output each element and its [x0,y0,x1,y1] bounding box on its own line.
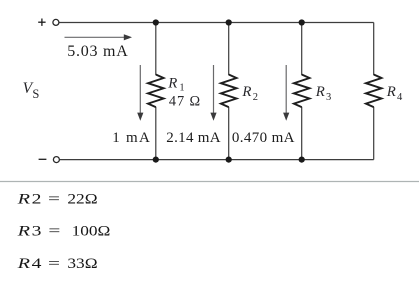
svg-text:47 Ω: 47 Ω [169,93,200,109]
svg-text:R: R [241,84,251,100]
svg-text:R: R [315,84,325,100]
terminal - (open circle) [53,157,59,163]
svg-text:3: 3 [32,224,42,240]
junction dot top of R3 [299,19,305,25]
svg-text:S: S [32,87,39,101]
wire: R3 branch vertical [301,23,303,76]
svg-text:R: R [16,256,30,272]
wire: top bus from + terminal to top-right corner [59,22,374,24]
svg-text:0.470 mA: 0.470 mA [232,130,295,146]
svg-text:5.03 mA: 5.03 mA [67,43,128,60]
svg-text:4: 4 [32,256,42,272]
wire: bottom bus from - terminal to bottom-right corner [60,159,374,161]
svg-text:33Ω: 33Ω [67,256,97,272]
resistor R3 [294,75,310,108]
equation R4 = 33 ohm [16,256,97,272]
junction dot bottom of R3 [299,157,305,163]
wire: R4 branch vertical (right edge) [373,23,375,76]
current arrow into R2 [210,65,216,121]
svg-text:2.14 mA: 2.14 mA [166,130,220,146]
junction dot bottom of R2 [226,157,232,163]
svg-text:4: 4 [397,92,403,103]
svg-text:1: 1 [179,83,184,94]
svg-text:=: = [48,256,60,272]
svg-text:100Ω: 100Ω [72,224,111,240]
svg-text:R: R [386,84,396,100]
svg-text:R: R [16,224,30,240]
svg-text:22Ω: 22Ω [67,191,97,207]
resistor R4 [366,75,382,108]
wire: R1 branch vertical [155,23,157,76]
svg-text:1 mA: 1 mA [112,130,150,146]
svg-text:3: 3 [326,92,331,103]
label + [38,19,45,26]
svg-text:R: R [167,75,177,91]
wire: R2 branch vertical [228,23,230,76]
equation R2 = 22 ohm [16,191,97,207]
junction dot bottom of R1 [153,157,159,163]
svg-text:=: = [48,224,60,240]
separator rule [0,181,419,183]
current arrow 5.03 mA (horizontal) [65,34,133,40]
resistor R2 [221,75,237,108]
svg-text:2: 2 [253,92,258,103]
resistor R1 [148,75,164,108]
svg-text:2: 2 [32,191,42,207]
junction dot top of R1 [153,19,159,25]
equation R3 = 100 ohm [16,224,110,240]
current arrow into R1 [137,65,143,121]
label - [39,158,47,160]
junction dot top of R2 [226,19,232,25]
current arrow into R3 [283,65,289,121]
terminal + (open circle) [53,19,59,25]
svg-text:R: R [16,191,30,207]
svg-text:=: = [48,191,60,207]
